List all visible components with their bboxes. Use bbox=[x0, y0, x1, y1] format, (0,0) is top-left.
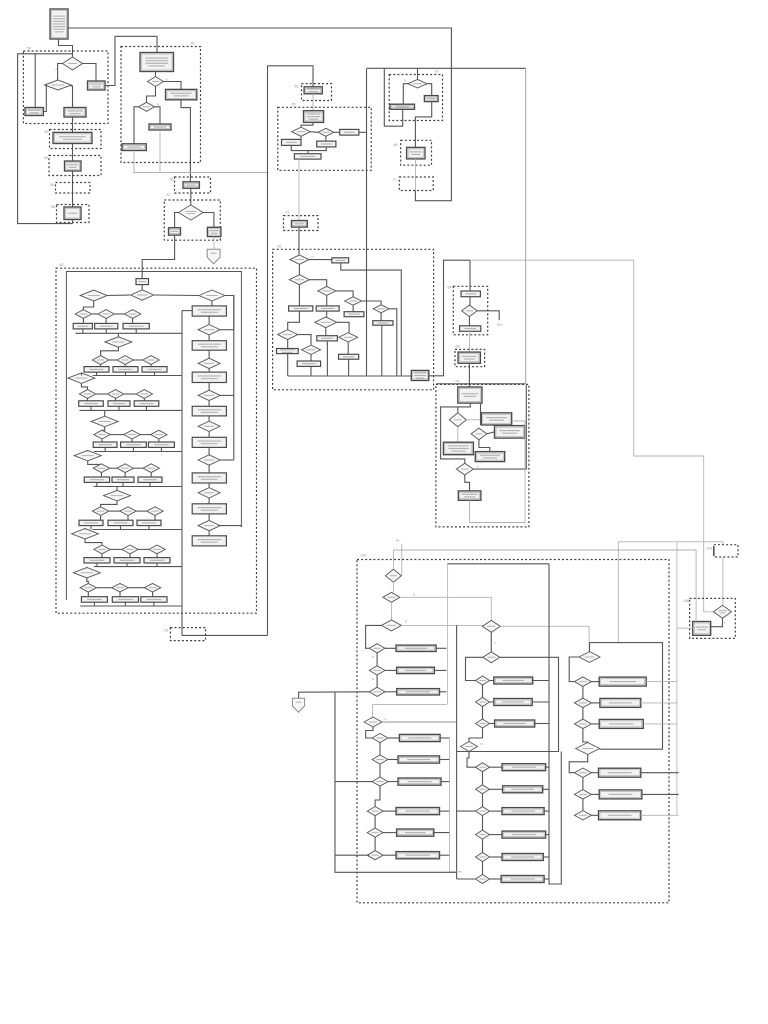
diamond D60 level1.2 bbox=[98, 310, 114, 319]
box B62m2 bbox=[317, 336, 338, 341]
box MB1.2 bbox=[494, 699, 532, 706]
wire level2 link1 bbox=[109, 359, 117, 361]
box level3 action2 bbox=[108, 401, 130, 407]
wire FB2.3 stub bbox=[441, 781, 450, 783]
box RB2 process bbox=[192, 341, 226, 351]
container 60 bbox=[56, 263, 257, 613]
wire B74a to D74b bbox=[480, 403, 482, 425]
wire Dloop down bbox=[366, 727, 373, 738]
wire D74a down gray bbox=[457, 427, 459, 442]
box init-list bbox=[50, 9, 68, 39]
box E10 compute bbox=[53, 132, 92, 143]
diamond M1.3 bbox=[476, 719, 490, 728]
wire D1 Y right bbox=[83, 64, 97, 82]
dark edge of 104 bbox=[713, 546, 715, 556]
wire B32l to btm bbox=[291, 145, 308, 153]
wire D74c right up bbox=[473, 384, 526, 469]
diamond D74a bbox=[449, 413, 466, 427]
wire entry corner bbox=[392, 550, 394, 569]
wire E30 down bbox=[312, 94, 314, 111]
diamond D60 level3 gate bbox=[68, 373, 95, 384]
box level3 action1 bbox=[79, 401, 104, 407]
box B51l set param2 bbox=[122, 144, 146, 151]
container 106 bbox=[683, 598, 735, 638]
diamond F1.1 bbox=[369, 644, 385, 653]
wire DR7 down bbox=[208, 498, 210, 504]
wire level7 b1 stem bbox=[101, 554, 103, 558]
wire level6 b3 stem bbox=[154, 515, 156, 520]
wire level6 b3 drop bbox=[148, 526, 150, 530]
wire right N outer bbox=[218, 526, 241, 527]
wire entry stem bbox=[141, 285, 143, 290]
box FB2.2 bbox=[398, 756, 440, 763]
box E32 head bbox=[304, 111, 324, 123]
return riser inside 60 bbox=[181, 311, 183, 636]
diamond F2.2 bbox=[372, 755, 388, 764]
container 73 bbox=[284, 211, 319, 231]
diamond D100e bbox=[483, 652, 500, 663]
diamond D62e bbox=[373, 305, 389, 313]
wire FB1.2 stub bbox=[434, 669, 446, 671]
wire M1.2 to box bbox=[490, 701, 494, 703]
container 55 bbox=[170, 177, 211, 193]
wire FB1.3 stub bbox=[440, 691, 447, 693]
box FB3.3 bbox=[396, 852, 440, 859]
box MB1.1 bbox=[494, 677, 533, 684]
wire M2.5 to box bbox=[490, 856, 503, 858]
diamond D60 level6.1 bbox=[92, 507, 108, 516]
diamond DR2 bbox=[198, 325, 220, 335]
wire D74b down bbox=[479, 440, 490, 452]
box level4 action3 bbox=[148, 442, 174, 447]
wire M2 chain 3 bbox=[482, 816, 484, 831]
diamond D36 bbox=[408, 79, 427, 88]
wire level1 feed bbox=[83, 301, 93, 310]
diamond D60 level4.3 bbox=[151, 430, 167, 439]
svg-text:52: 52 bbox=[45, 130, 49, 134]
wire FB2.1 stub bbox=[440, 737, 450, 739]
wire level2 gate entry bbox=[117, 333, 119, 337]
wire D62f right bbox=[298, 335, 311, 346]
container 67 bbox=[389, 70, 442, 121]
svg-text:N: N bbox=[385, 718, 387, 722]
wire level1 link1 bbox=[92, 313, 98, 315]
wire level7 link1 bbox=[110, 548, 122, 550]
wire A to F3 left bbox=[299, 692, 370, 699]
wire level2 b3 drop bbox=[154, 372, 156, 375]
wire level5 gate entry bbox=[87, 450, 89, 451]
diamond D60 left bbox=[80, 290, 107, 301]
wire level6 b2 stem bbox=[127, 515, 129, 520]
wire D1 to D2 bbox=[58, 64, 63, 81]
wire RB6 to DR7 bbox=[208, 483, 210, 488]
wire RB5 to DR6 bbox=[208, 447, 210, 454]
wire level5 b2 stem bbox=[124, 473, 126, 478]
box RB8 process bbox=[192, 536, 226, 546]
box B32m bbox=[317, 141, 336, 147]
box level1 action1 bbox=[73, 323, 92, 329]
wire D62b down bbox=[298, 285, 300, 306]
diamond D60 level7 gate bbox=[72, 529, 99, 540]
diamond G6.3 bbox=[574, 811, 591, 821]
wire right box to B1 chain bbox=[105, 36, 157, 85]
wire level4 b2 stem bbox=[131, 439, 133, 442]
wire G1 jog bbox=[569, 657, 579, 682]
wire G5 jog bbox=[569, 755, 588, 773]
wire C101 down to E8 bbox=[190, 188, 192, 205]
box B74b bbox=[481, 413, 511, 425]
container 104 bbox=[706, 545, 738, 557]
diamond D60 level1.3 bbox=[124, 310, 140, 319]
wire level4 b2 drop bbox=[132, 447, 134, 451]
svg-text:Y: Y bbox=[724, 621, 726, 625]
wire M1.1 to box bbox=[490, 680, 494, 682]
diamond D100f bbox=[461, 742, 478, 752]
wire level2 b2 drop bbox=[125, 372, 127, 375]
box B74d bbox=[475, 452, 504, 462]
diamond D60 level7.3 bbox=[149, 545, 165, 554]
wire gray collector bus bbox=[133, 172, 268, 174]
diamond M2.1 bbox=[476, 763, 490, 772]
wire GB6.1 stub bbox=[641, 772, 679, 774]
box level4 action2 bbox=[121, 442, 147, 447]
diamond D60 level2.3 bbox=[143, 356, 159, 365]
diamond D60 level6 gate bbox=[104, 490, 131, 501]
svg-text:73: 73 bbox=[285, 211, 289, 215]
wire level5 b3 drop bbox=[149, 482, 151, 486]
wire init long bus right then down to E42 exit bbox=[68, 28, 451, 201]
wire RB1 to DR2 bbox=[208, 316, 210, 324]
box B106 bbox=[693, 622, 711, 636]
wire B62f drop bbox=[287, 354, 289, 376]
box FB1.2 bbox=[397, 667, 435, 673]
wire level6 link2 bbox=[136, 510, 147, 512]
wire level8 link2 bbox=[128, 587, 144, 589]
wire D100e right loop bbox=[457, 625, 559, 751]
wire E16 down to loop bbox=[72, 220, 74, 224]
wire level2 b1 drop bbox=[96, 372, 98, 375]
wire B51 to D3 bbox=[155, 72, 157, 77]
wire RB3 to DR4 bbox=[208, 383, 210, 391]
wire RB4 to DR5 bbox=[208, 416, 210, 421]
wire FB1.1 stub bbox=[436, 647, 446, 649]
box level6 action2 bbox=[108, 520, 133, 525]
diamond G6.2 bbox=[574, 790, 591, 800]
wire D60right N loop bbox=[225, 296, 234, 330]
wire D100b right gray bbox=[400, 597, 491, 620]
wire level1 bus bbox=[75, 332, 182, 334]
container 58 bbox=[51, 205, 89, 223]
svg-text:N: N bbox=[481, 742, 483, 746]
wire F2.2 to box bbox=[388, 759, 398, 761]
wire level1 b3 stem bbox=[132, 318, 134, 323]
box MB2.5 bbox=[502, 854, 543, 861]
box B62a bbox=[332, 258, 349, 263]
diamond F1.3 bbox=[369, 687, 385, 696]
diamond Dloop bbox=[364, 717, 382, 727]
wire 62 exit up bbox=[429, 260, 470, 376]
diamond DR6 bbox=[198, 455, 220, 465]
wire level4 link1 bbox=[110, 434, 124, 436]
wire G6.3 to box bbox=[591, 814, 598, 816]
wire level3 b1 stem bbox=[87, 398, 89, 401]
wire level1 b2 drop bbox=[105, 329, 107, 333]
wire level4 bus bbox=[94, 451, 182, 453]
wire G6.2 to box bbox=[591, 793, 599, 795]
box GB6.1 bbox=[599, 768, 641, 777]
box B74c bbox=[495, 426, 525, 439]
inner frame of 60 bbox=[66, 272, 241, 601]
box level5 action2 bbox=[112, 477, 134, 482]
wire D62a right bbox=[309, 259, 332, 261]
svg-text:55: 55 bbox=[170, 178, 174, 182]
wire level4 b3 drop bbox=[160, 447, 162, 451]
wire D100c right gray bbox=[401, 624, 482, 626]
wire RB7 to DR8 bbox=[208, 514, 210, 521]
wire level3 bus bbox=[80, 409, 183, 411]
box E12 update bbox=[65, 161, 82, 171]
diamond D100a bbox=[385, 569, 401, 582]
wire GB2.2 stub bbox=[641, 702, 677, 704]
svg-text:Y: Y bbox=[494, 641, 496, 645]
wire level4 b3 stem bbox=[158, 439, 160, 442]
wire D100d right gray bbox=[500, 626, 589, 651]
diamond D60 level5 gate bbox=[74, 450, 101, 461]
diamond D62b bbox=[289, 275, 309, 285]
box FB3.1 bbox=[396, 808, 440, 815]
box set flag right bbox=[88, 81, 106, 90]
wire level8 b3 stem bbox=[152, 592, 154, 597]
wire level8 link1 bbox=[97, 587, 112, 589]
wire MB2.5 stub bbox=[543, 856, 549, 858]
container 63 bbox=[295, 84, 332, 101]
long vertical from bus 68 to container 62 bus bbox=[366, 68, 368, 376]
wire level4 link2 bbox=[140, 434, 150, 436]
wire F2.1 to box bbox=[388, 737, 400, 739]
wire D62m down bbox=[325, 328, 327, 336]
wire E32 head to D32a bbox=[301, 122, 313, 127]
wire D74b right bbox=[487, 432, 495, 434]
box B62x exit bbox=[411, 370, 429, 380]
wire D62f down bbox=[287, 340, 289, 349]
wire FB3.1 stub bbox=[440, 810, 450, 812]
svg-text:63: 63 bbox=[295, 85, 299, 89]
box B32btm bbox=[294, 154, 321, 159]
diamond M1.1 bbox=[476, 676, 490, 685]
diamond D4 test2 bbox=[139, 102, 155, 111]
diamond D60 level8.2 bbox=[112, 583, 128, 592]
diamond D60 level4.1 bbox=[94, 430, 110, 439]
wire D32b to B32r bbox=[334, 131, 340, 133]
wire exit bus 60 bbox=[182, 634, 268, 636]
box B51r compute offset bbox=[166, 89, 197, 99]
container 56 bbox=[50, 183, 90, 194]
diamond D60 right bbox=[199, 290, 225, 301]
wire level1 b3 drop bbox=[135, 329, 137, 333]
diamond D62d bbox=[345, 297, 362, 305]
wire D62d down bbox=[352, 305, 354, 312]
box B62d bbox=[344, 312, 364, 317]
wire entry to left bbox=[107, 294, 131, 297]
wire E32 to E17 bbox=[298, 159, 300, 220]
diamond D60 level5.2 bbox=[117, 464, 133, 473]
box level7 action1 bbox=[84, 558, 110, 563]
wire F2-F3 link bbox=[375, 786, 380, 806]
wire level7 b3 stem bbox=[156, 554, 158, 558]
wire level1 b2 stem bbox=[105, 318, 107, 323]
diamond D62f bbox=[278, 330, 298, 340]
wire level3 gate entry bbox=[80, 373, 82, 376]
wire D4 right down bbox=[155, 107, 161, 124]
diamond M2.5 bbox=[476, 853, 490, 862]
wire G2.3 to box bbox=[591, 723, 599, 725]
wire M2 chain 2 bbox=[482, 794, 484, 807]
wire M2.4 to box bbox=[490, 834, 503, 836]
wire level7 gate entry bbox=[84, 528, 86, 531]
wire G6.1 to box bbox=[591, 772, 598, 774]
wire G4 to G5 bbox=[583, 729, 588, 743]
diamond DR7 bbox=[198, 488, 220, 498]
box level8 action2 bbox=[112, 597, 138, 603]
diamond D74c bbox=[456, 463, 473, 475]
big return vertical bbox=[267, 66, 269, 636]
diamond D60 level3.2 bbox=[107, 390, 123, 399]
gray riser 676 bbox=[676, 542, 678, 815]
box level2 action3 bbox=[142, 367, 167, 373]
wire level6 b1 stem bbox=[100, 515, 102, 520]
wire Dloop right bbox=[382, 721, 457, 723]
diamond D60 entry bbox=[131, 290, 154, 300]
wire MB2.3 stub bbox=[544, 810, 549, 812]
wire bus of 62 bbox=[288, 375, 412, 377]
box FB2.3 bbox=[398, 778, 441, 785]
wire level8 bus bbox=[80, 605, 182, 607]
box B72 bbox=[458, 352, 480, 363]
wire D62e right bbox=[389, 309, 397, 376]
box MB2.6 bbox=[501, 876, 544, 883]
diamond DR4 bbox=[198, 390, 220, 400]
svg-text:61: 61 bbox=[165, 629, 169, 633]
wire MB2.2 stub bbox=[543, 788, 549, 790]
svg-text:71: 71 bbox=[393, 178, 397, 182]
svg-text:58: 58 bbox=[51, 205, 55, 209]
wire level3 link2 bbox=[124, 393, 136, 395]
diamond D60 level4 gate bbox=[91, 416, 118, 427]
container 65 bbox=[278, 103, 371, 171]
box RB6 process bbox=[192, 473, 226, 483]
diamond D100b bbox=[383, 592, 400, 602]
wire B62n drop bbox=[348, 359, 350, 376]
wire 335 branch bbox=[335, 781, 372, 783]
diamond D60 level5.1 bbox=[93, 464, 109, 473]
wire entry tick bbox=[401, 544, 403, 576]
wire B62m2 drop bbox=[326, 341, 328, 376]
diamond D60 level3.1 bbox=[79, 390, 95, 399]
diamond D60 level3.3 bbox=[136, 390, 152, 399]
wire level8 b3 drop bbox=[153, 602, 155, 606]
wire level1 link2 bbox=[114, 313, 124, 315]
wire DR2 down bbox=[208, 335, 210, 341]
wire level2 b3 stem bbox=[150, 364, 152, 366]
wire M1 to D100f bbox=[469, 728, 483, 742]
diamond D60 level2.1 bbox=[92, 356, 108, 365]
wire level1 b1 drop bbox=[82, 329, 84, 333]
diamond D32a bbox=[292, 127, 311, 136]
diamond D32b bbox=[318, 128, 334, 136]
box B70b bbox=[460, 326, 481, 332]
box GB6.2 bbox=[599, 790, 642, 799]
box FB2.1 bbox=[399, 734, 440, 741]
svg-text:N: N bbox=[312, 255, 314, 259]
wire G2 chain 2 bbox=[582, 708, 584, 719]
wire FB2.2 stub bbox=[440, 759, 450, 761]
wire D100e left bbox=[466, 657, 483, 680]
box GB2.3 bbox=[599, 719, 643, 728]
wire level4 b1 stem bbox=[101, 439, 103, 442]
box level2 action2 bbox=[113, 367, 138, 373]
wire M1 chain 2 bbox=[482, 707, 484, 720]
wire F2 chain 1 bbox=[379, 743, 381, 755]
connector A off-page bbox=[292, 698, 304, 712]
container 50 bbox=[23, 47, 108, 124]
wire D100d down bbox=[490, 632, 492, 652]
box B51m set param bbox=[149, 124, 171, 130]
box B62f bbox=[277, 349, 299, 354]
wire level6 link1 bbox=[109, 510, 120, 512]
wire right N loop vertical bbox=[233, 296, 235, 461]
svg-text:51: 51 bbox=[191, 42, 195, 46]
box level8 action1 bbox=[81, 597, 107, 603]
svg-text:66: 66 bbox=[456, 345, 460, 349]
wire level6 bus bbox=[93, 529, 182, 531]
diamond D62a bbox=[290, 255, 309, 264]
diamond D74b bbox=[471, 428, 487, 440]
wire D62n down bbox=[347, 342, 349, 354]
diamond D60 level6.3 bbox=[147, 507, 163, 516]
wire GB6.3 stub bbox=[641, 814, 679, 816]
box level1 action2 bbox=[95, 323, 118, 329]
wire level5 link2 bbox=[133, 467, 143, 469]
container 61 bbox=[165, 628, 206, 641]
diamond M2.2 bbox=[476, 785, 490, 794]
box B62g bbox=[297, 361, 321, 366]
container 66 bbox=[455, 345, 485, 367]
right bus of 100 bbox=[548, 564, 550, 885]
diamond G6.1 bbox=[574, 768, 591, 778]
svg-text:N: N bbox=[157, 103, 159, 107]
svg-text:62: 62 bbox=[278, 245, 282, 249]
wire B36r to E40 bbox=[415, 102, 431, 148]
box C101 store bbox=[183, 182, 199, 189]
wire B32r join long vertical bbox=[359, 131, 367, 133]
wire D74c down bbox=[465, 475, 470, 491]
wire B106 left gray bbox=[677, 627, 693, 629]
diamond D60 level7.2 bbox=[122, 545, 138, 554]
diamond D60 level8.1 bbox=[80, 583, 96, 592]
svg-text:100: 100 bbox=[361, 554, 367, 558]
wire D74a right gray bbox=[466, 419, 481, 421]
box set flag left bbox=[25, 108, 43, 116]
wire D70 down bbox=[468, 317, 470, 326]
wire top bus 100 bbox=[448, 563, 549, 565]
wire B32m to btm bbox=[308, 147, 326, 151]
wire D62g down bbox=[310, 355, 312, 362]
wire D60right down to RB1 bbox=[211, 301, 213, 306]
wire D100b down bbox=[390, 602, 392, 620]
wire D100f jog bbox=[467, 752, 476, 768]
wire level2 bus bbox=[93, 375, 182, 377]
box GB6.3 bbox=[599, 811, 641, 820]
